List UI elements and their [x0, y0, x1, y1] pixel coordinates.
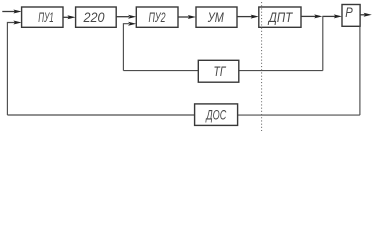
- block 220: [76, 7, 117, 27]
- wire: DOS right segment: [238, 114, 360, 116]
- svg-text:ПУ2: ПУ2: [149, 9, 166, 25]
- arrowhead into junction: [314, 14, 322, 18]
- block DPT: [259, 7, 301, 27]
- block UM: [196, 7, 237, 27]
- wire: R output: [360, 14, 365, 16]
- arrowhead into 220: [67, 15, 75, 19]
- svg-text:Р: Р: [345, 4, 353, 20]
- wire: TG left segment: [123, 70, 198, 72]
- arrowhead into PU2 top input: [128, 15, 136, 19]
- wire: PU1 to 220: [63, 16, 70, 18]
- svg-text:УМ: УМ: [207, 9, 224, 25]
- wire: DPT to junction: [301, 15, 316, 17]
- arrowhead into UM: [188, 15, 196, 19]
- wire: junction to R: [322, 15, 335, 17]
- block DOS: [195, 104, 238, 126]
- svg-text:ДОС: ДОС: [205, 106, 227, 122]
- svg-text:220: 220: [83, 9, 105, 25]
- wire: PU2 to UM: [178, 16, 190, 18]
- wire: UM to DPT: [237, 16, 253, 18]
- arrowhead into PU1 bottom input: [13, 21, 21, 25]
- svg-text:ДПТ: ДПТ: [267, 9, 293, 25]
- wire: external input to PU1: [2, 11, 15, 13]
- wire: TG right segment: [239, 70, 323, 72]
- arrowhead into R: [334, 14, 342, 18]
- block TG: [198, 60, 239, 82]
- block R: [342, 5, 360, 27]
- wire: DOS left segment: [7, 114, 194, 116]
- dotted separator line: [261, 2, 263, 131]
- svg-text:ПУ1: ПУ1: [38, 9, 54, 25]
- block PU1: [22, 7, 63, 27]
- wire: R bottom-right drop to DOS line: [359, 26, 361, 115]
- arrowhead into PU1 top input: [13, 10, 21, 14]
- wire: junction riser down to TG line: [322, 16, 324, 70]
- arrowhead into DPT: [251, 15, 259, 19]
- arrowhead at output: [364, 13, 372, 17]
- wire: TG feedback riser to PU2 second input: [123, 24, 129, 71]
- wire: 220 to PU2: [116, 16, 129, 18]
- arrowhead into PU2 bottom input: [128, 22, 136, 26]
- block PU2: [136, 7, 178, 27]
- svg-text:ТГ: ТГ: [214, 63, 227, 79]
- wire: DOS feedback riser to PU1 second input: [7, 23, 15, 116]
